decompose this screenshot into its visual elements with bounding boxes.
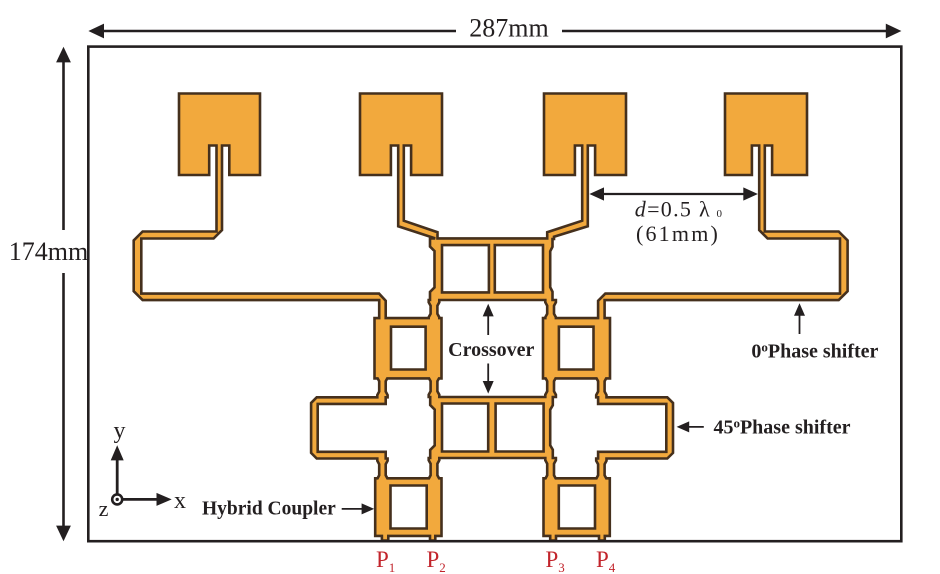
svg-text:P4: P4 — [596, 547, 616, 574]
svg-text:P3: P3 — [546, 547, 565, 574]
axis x — [117, 498, 158, 501]
wire column left lower — [428, 457, 441, 482]
wire column right upper — [544, 299, 557, 321]
svg-text:(61mm): (61mm) — [636, 221, 720, 246]
port P1 foot — [381, 535, 389, 542]
svg-text:287mm: 287mm — [469, 14, 548, 43]
wire patch3 feed jog — [546, 165, 589, 240]
dimension arrow 174mm (left) — [56, 47, 71, 541]
substrate board outline — [88, 47, 901, 542]
wire column right lower — [544, 457, 557, 482]
45-deg phase shifter loop left — [310, 396, 387, 459]
wire column right mid — [544, 375, 557, 399]
patch antenna 3 — [543, 93, 627, 177]
svg-text:Hybrid Coupler: Hybrid Coupler — [202, 499, 336, 520]
microstrip feed network union outline — [134, 94, 848, 541]
svg-text:Crossover: Crossover — [448, 339, 534, 361]
wire stub left loop to coupler — [376, 458, 388, 483]
hybrid coupler U3 (middle right ring) — [542, 317, 611, 379]
wire stub right ring to loop — [595, 375, 607, 399]
svg-text:d=0.5 λ0: d=0.5 λ0 — [635, 197, 724, 222]
port P3 foot — [549, 535, 557, 542]
patch antenna 2 — [359, 93, 443, 177]
arrow 0-deg phase shifter — [794, 303, 805, 334]
svg-text:z: z — [99, 496, 109, 521]
crossover X1 (top) — [429, 237, 554, 301]
hybrid coupler U2 (middle left ring) — [374, 317, 443, 379]
arrow hybrid coupler — [342, 503, 375, 514]
hybrid coupler U4 (bottom left) — [374, 477, 442, 537]
patch antenna 1 — [178, 93, 261, 177]
wire column left upper — [428, 299, 441, 321]
dimension arrow d=0.5 lambda0 — [589, 187, 758, 200]
wire stub right loop to coupler — [595, 458, 607, 483]
arrow crossover down — [483, 364, 494, 394]
svg-text:174mm: 174mm — [9, 237, 88, 266]
patch antenna 4 — [724, 93, 808, 177]
crossover X2 (bottom) — [429, 396, 554, 459]
svg-text:x: x — [174, 488, 186, 514]
svg-text:P2: P2 — [427, 547, 446, 574]
coordinate axes — [111, 445, 172, 506]
axis y — [116, 459, 119, 499]
wire stub left ring to loop — [376, 375, 388, 399]
svg-text:45oPhase shifter: 45oPhase shifter — [713, 415, 850, 438]
wire left 0-deg phase shifter arm (patch1 feed, bend, long bus) — [133, 160, 387, 324]
svg-text:P1: P1 — [376, 547, 395, 574]
svg-text:y: y — [114, 418, 126, 444]
arrow 45-deg phase shifter — [677, 421, 704, 432]
svg-text:0oPhase shifter: 0oPhase shifter — [751, 340, 878, 363]
port P2 foot — [429, 535, 436, 542]
port P4 foot — [598, 535, 606, 542]
wire patch2 feed jog — [397, 165, 438, 240]
hybrid coupler U5 (bottom right) — [543, 477, 611, 537]
wire column left mid — [428, 375, 441, 399]
axis z origin symbol — [112, 494, 122, 504]
arrow crossover up — [483, 304, 494, 335]
dimension arrow 287mm (top) — [88, 24, 901, 39]
45-deg phase shifter loop right — [597, 396, 674, 459]
wire right 0-deg phase shifter arm (patch4 feed, bend, long bus) — [597, 160, 849, 324]
